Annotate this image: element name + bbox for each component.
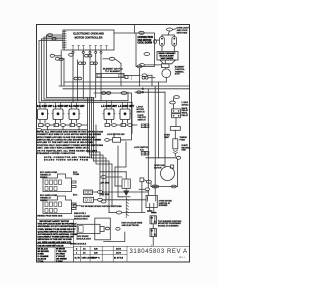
lamp top tie wire — [162, 34, 174, 36]
high voltage electrode assembly — [122, 179, 130, 189]
svg-text:WIRING: WIRING — [40, 177, 48, 179]
U1 internal bottom pins — [72, 46, 108, 50]
oven lamp L2 — [172, 37, 177, 47]
svg-text:POSITION ONLY. DISCONNECT POWE: POSITION ONLY. DISCONNECT POWER BEFORE S… — [37, 145, 103, 147]
svg-text:SL TK: SL TK — [75, 258, 81, 260]
svg-text:SWITCH RELAY CONTACTS ARE SHOW: SWITCH RELAY CONTACTS ARE SHOWN WITHOUT … — [37, 139, 101, 142]
harness plug P2 — [43, 174, 76, 192]
dashed jumper — [130, 76, 132, 80]
rear ceramic block assembly — [157, 52, 178, 61]
bullet on fan return — [146, 180, 151, 183]
svg-text:LMP 2 BK: LMP 2 BK — [100, 194, 110, 196]
svg-text:SWITCH: SWITCH — [138, 120, 146, 122]
surface unit switch S2 — [52, 102, 64, 123]
connector bullet — [55, 57, 59, 60]
bullets above ignitor — [145, 188, 149, 191]
connector bullet on harness — [47, 34, 52, 37]
svg-text:T TAN: T TAN — [38, 260, 44, 263]
spec table text — [75, 247, 124, 259]
svg-text:BOARD VIEWS SHOWN FROM: BOARD VIEWS SHOWN FROM — [44, 159, 88, 162]
top burner ignitor pair 1 — [150, 216, 157, 224]
svg-text:2173: 2173 — [116, 252, 122, 254]
svg-text:EOC: EOC — [73, 194, 78, 196]
svg-text:ELECTRONIC OVEN AND: ELECTRONIC OVEN AND — [73, 32, 104, 36]
svg-text:L.F. SURF UNIT: L.F. SURF UNIT — [101, 104, 117, 108]
notes box text — [38, 220, 79, 244]
nested corner turns into collector band — [47, 97, 95, 99]
svg-text:2173: 2173 — [116, 248, 122, 250]
bake relay chain top bullets — [174, 96, 180, 99]
svg-text:APPLIED TO THE UNIT AND DOOR I: APPLIED TO THE UNIT AND DOOR IN UNLOCKED — [37, 141, 93, 144]
svg-text:RELAY: RELAY — [182, 114, 189, 117]
svg-text:LOCK MOTOR SW: LOCK MOTOR SW — [107, 134, 125, 136]
element air-flo tube component — [96, 73, 124, 77]
fan bottom return wire — [151, 186, 178, 188]
spark ignition switch block 1 — [84, 190, 93, 195]
svg-text:L.R. SURF UNIT: L.R. SURF UNIT — [53, 104, 69, 108]
svg-text:SWITCHES: SWITCHES — [177, 32, 188, 34]
svg-text:BOXES AT BURNERS: BOXES AT BURNERS — [158, 225, 179, 228]
svg-text:THIS APPLIANCE MUST BE PROPERL: THIS APPLIANCE MUST BE PROPERLY — [38, 223, 78, 226]
svg-text:240V 3400W: 240V 3400W — [161, 57, 175, 60]
svg-text:COLOR CODE KEY COLOR: COLOR CODE KEY COLOR — [38, 245, 65, 247]
bullet left of thermostat — [140, 64, 145, 67]
svg-text:WITH POWER APPLIED CLOSE THE O: WITH POWER APPLIED CLOSE THE OVEN DOOR A… — [37, 136, 95, 139]
connector bullet — [50, 54, 54, 57]
surface unit switch S5 — [119, 102, 131, 123]
convection fan motor relay box — [136, 33, 155, 67]
color code table text — [38, 245, 68, 263]
color code table — [37, 244, 74, 263]
wire lock feeder drop — [121, 93, 132, 140]
connector bullets on feeder — [102, 92, 106, 95]
svg-text:STAT: STAT — [175, 73, 181, 76]
border frame — [37, 25, 190, 263]
junction node on L1 feeder — [142, 88, 144, 90]
svg-text:FUSE: FUSE — [180, 139, 186, 141]
U1 bottom pins with pin circles — [72, 50, 74, 52]
svg-text:IMPORTANT SAFETY NOTICE: IMPORTANT SAFETY NOTICE — [40, 220, 70, 223]
vertical wires from U1 pins down to collector band — [60, 50, 62, 86]
svg-text:MODULE BOX: MODULE BOX — [74, 219, 88, 221]
svg-text:WIRING: WIRING — [40, 200, 48, 202]
connector bullets left-mid column — [101, 176, 106, 179]
harness plug P3 — [43, 196, 76, 214]
pointer box for switch note — [73, 204, 76, 207]
title block top rule — [127, 245, 190, 247]
surface unit switch S1 — [36, 102, 48, 123]
convection fan motor B1 — [161, 167, 175, 181]
svg-text:SEE NOTE 3: SEE NOTE 3 — [74, 213, 87, 215]
thermal fuse F1 — [173, 139, 178, 149]
notes box — [37, 219, 74, 243]
junction node on neutral feeder — [142, 91, 144, 93]
svg-text:ELEMENT AIR FLO: ELEMENT AIR FLO — [103, 67, 123, 70]
oven lamp L1 — [160, 37, 165, 47]
bundle turn down right — [88, 152, 101, 196]
connector bullet right of tube — [142, 74, 147, 77]
svg-text:UNIT. USE ONLY REPLACEMENT WIR: UNIT. USE ONLY REPLACEMENT WIRE 105 C — [37, 147, 89, 150]
svg-text:ALL WIRE GAGES ARE AWG 2173: ALL WIRE GAGES ARE AWG 2173 — [38, 241, 72, 244]
bullet below fan — [171, 185, 176, 188]
svg-text:L.F. SURF UNIT: L.F. SURF UNIT — [118, 104, 134, 108]
svg-text:EL STYLE: EL STYLE — [114, 258, 124, 260]
terminal strip — [170, 127, 180, 131]
svg-text:MODULE ASSY: MODULE ASSY — [77, 237, 92, 240]
svg-text:VENT: VENT — [164, 137, 170, 139]
svg-text:QUALIFIED SERVICE TECHNICIAN I: QUALIFIED SERVICE TECHNICIAN IN — [38, 230, 75, 233]
collector wire under left switches — [41, 126, 47, 129]
oval on motor box right edge — [154, 40, 157, 44]
svg-text:318045803 REV A: 318045803 REV A — [130, 249, 188, 255]
svg-text:120VAC: 120VAC — [182, 103, 190, 106]
svg-text:COOL DOWN: COOL DOWN — [138, 43, 153, 45]
wire oval right of U1 — [109, 57, 115, 60]
svg-text:R.F. SURF UNIT: R.F. SURF UNIT — [69, 104, 85, 108]
svg-text:SWITCH: SWITCH — [137, 111, 145, 113]
surface unit switch S4 — [103, 101, 115, 123]
svg-text:DISCONNECT POWER BEFORE ANY: DISCONNECT POWER BEFORE ANY — [38, 236, 75, 239]
svg-text:MPL-1: MPL-1 — [179, 257, 186, 259]
svg-text:TEMP °C: TEMP °C — [92, 258, 100, 260]
spark module assembly — [77, 218, 125, 241]
svg-text:CONN: CONN — [73, 174, 79, 176]
svg-text:R.R. SURF UNIT: R.R. SURF UNIT — [37, 104, 53, 108]
bake relay K1 — [172, 109, 181, 113]
inline connector oval pairs on verticals — [69, 53, 74, 56]
top burner ignitor pair 2 — [150, 229, 157, 237]
wire box2 drop — [139, 68, 141, 86]
terminal pair — [142, 76, 145, 79]
svg-text:GND: GND — [182, 150, 187, 152]
wire bundle down center through switch row — [87, 98, 89, 153]
connector pin ladder on U1 left edge — [62, 31, 66, 50]
svg-text:TLC ELEMENT: TLC ELEMENT — [105, 71, 121, 73]
receptacle blocks and bullets under switches — [37, 124, 133, 132]
svg-text:TOP BURNER SPARK IGNITION SWIT: TOP BURNER SPARK IGNITION SWITCHES — [81, 205, 123, 208]
svg-text:FAN MOTOR: FAN MOTOR — [138, 39, 152, 42]
svg-text:OR ITS EQUIVALENT. ALL WIRE GA: OR ITS EQUIVALENT. ALL WIRE GAGES ARE AW… — [37, 149, 97, 152]
right corridor vertical wires — [164, 92, 166, 167]
spec table — [74, 246, 128, 262]
svg-text:ACCORDANCE WITH NATIONAL CODES: ACCORDANCE WITH NATIONAL CODES — [38, 233, 79, 236]
wire harness left of U1 turning down — [47, 35, 64, 98]
oven spark ignitor box — [146, 195, 157, 207]
svg-text:NOTE: ALL SWITCHES ARE SHOWN I: NOTE: ALL SWITCHES ARE SHOWN IN THE OFF … — [37, 130, 103, 133]
spark ignition switch block 2 — [84, 197, 94, 202]
svg-text:CONNECT BLK WIRE OF LOCK MOTOR: CONNECT BLK WIRE OF LOCK MOTOR SWITCH AS… — [37, 133, 101, 136]
svg-text:AND ELECTRODE: AND ELECTRODE — [122, 224, 140, 227]
svg-text:STRANDED COPPER CONDUCTOR: STRANDED COPPER CONDUCTOR — [37, 152, 75, 155]
latch switch pair B — [141, 151, 144, 155]
element control thermostat — [162, 64, 170, 68]
svg-text:NOTE: CONNECTOR AND TERMINAL: NOTE: CONNECTOR AND TERMINAL — [44, 156, 93, 159]
connector bullet — [52, 38, 56, 41]
broil relay K2 — [172, 114, 181, 118]
svg-text:N.O.: N.O. — [140, 150, 145, 152]
horizontal feeder wires — [64, 81, 166, 83]
bullet above fan — [176, 156, 180, 159]
wire lamp to motor box — [155, 39, 160, 41]
svg-text:MOTOR: MOTOR — [154, 167, 162, 169]
svg-text:MOTOR CONTROLLER: MOTOR CONTROLLER — [75, 35, 103, 39]
latch switch pair A — [141, 124, 144, 128]
pin block left mid — [125, 76, 128, 79]
svg-text:CONVECTION: CONVECTION — [138, 37, 154, 39]
electrode bars — [149, 208, 151, 211]
svg-text:P PINK: P PINK — [56, 261, 63, 263]
svg-text:VIEWED FROM WIRE SIDE: VIEWED FROM WIRE SIDE — [37, 216, 63, 218]
svg-text:BURNER: BURNER — [159, 205, 168, 207]
surface unit switch S3 — [68, 102, 80, 123]
wire links in receptacle row — [43, 124, 45, 126]
lock motor box with bullet — [105, 139, 110, 142]
svg-text:SPARK MODULE: SPARK MODULE — [70, 242, 87, 245]
svg-text:LMP 4 BK: LMP 4 BK — [100, 182, 110, 185]
oven light bullet — [167, 28, 173, 31]
op board: electronic oven control U1 — [63, 30, 114, 50]
